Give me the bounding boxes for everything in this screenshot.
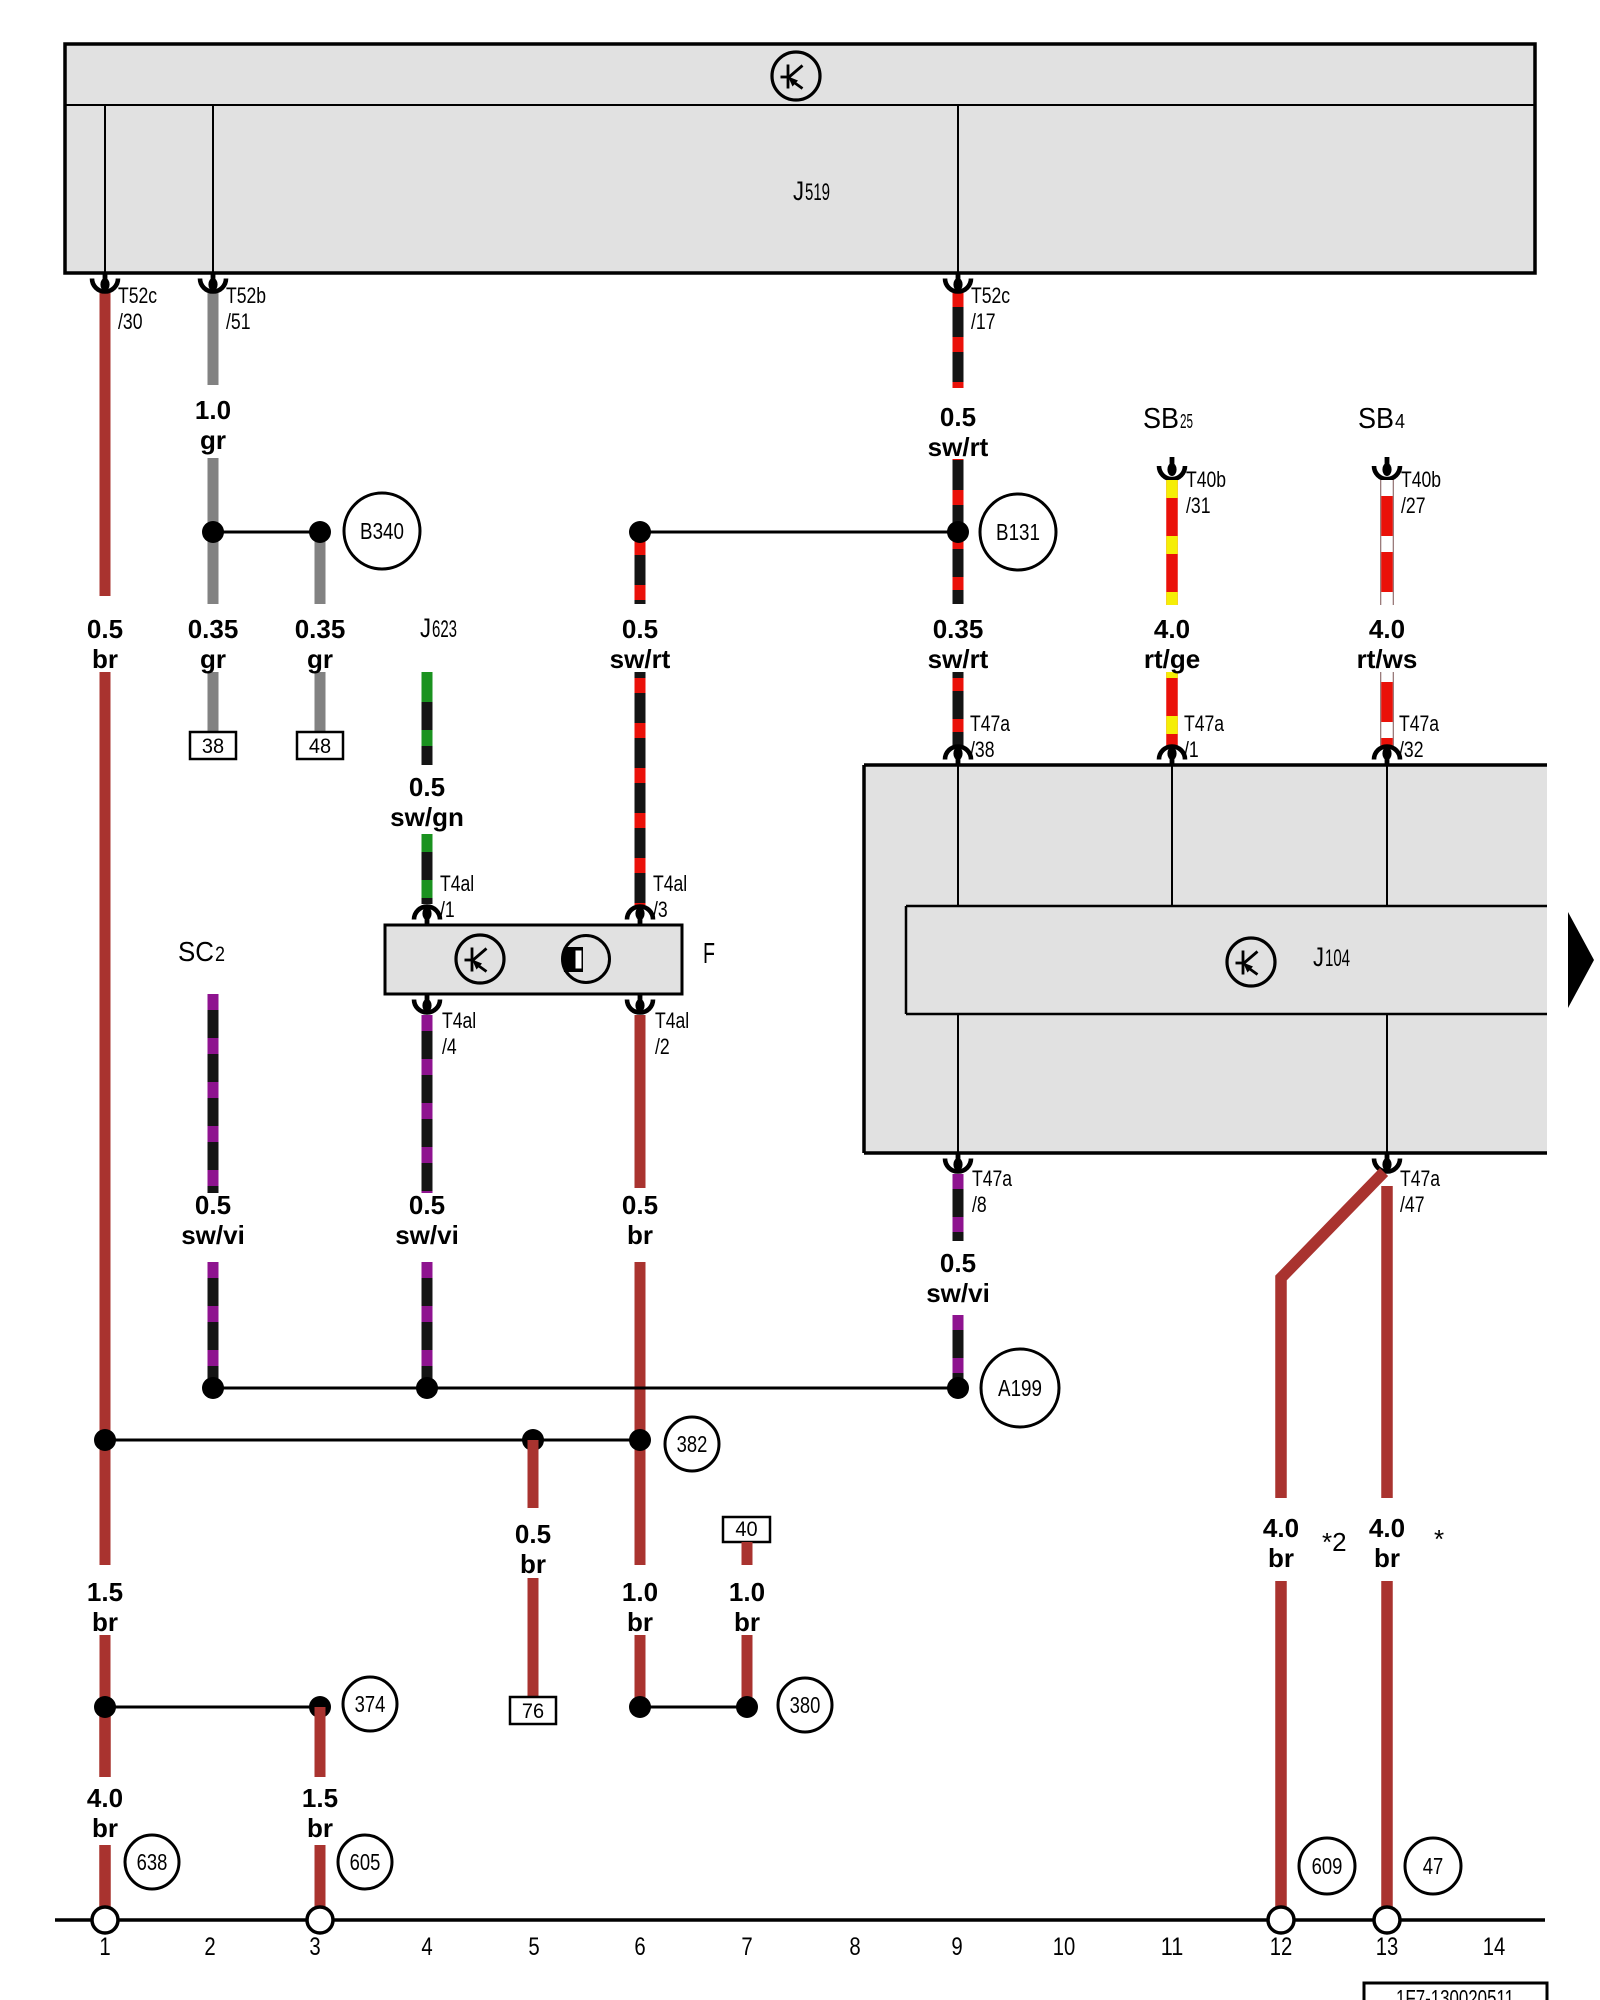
label 0.5 br col1 — [87, 614, 123, 674]
svg-text:1.0: 1.0 — [729, 1577, 765, 1607]
wire 4.0 rt/ws to J104 T47a/32 — [1380, 672, 1394, 747]
svg-text:br: br — [627, 1607, 653, 1637]
wire 0.35 gr to terminal 38 — [208, 672, 219, 732]
K symbol in F box — [456, 935, 504, 983]
svg-text:38: 38 — [202, 735, 224, 758]
svg-text:T47a: T47a — [1400, 1166, 1441, 1191]
svg-text:/8: /8 — [972, 1192, 987, 1217]
wire 4.0 br col12 to ground — [1275, 1581, 1287, 1908]
svg-text:T40b: T40b — [1186, 467, 1226, 492]
svg-text:0.5: 0.5 — [622, 614, 658, 644]
svg-text:J: J — [420, 613, 431, 643]
svg-text:/47: /47 — [1400, 1192, 1425, 1217]
connection 382 — [665, 1417, 719, 1471]
svg-text:1: 1 — [99, 1933, 110, 1961]
svg-text:sw/gn: sw/gn — [390, 802, 464, 832]
wire 1.0 br below terminal 40 — [742, 1542, 753, 1565]
svg-text:0.5: 0.5 — [409, 1190, 445, 1220]
control unit J519 box — [65, 44, 1535, 273]
wire 0.5 br col5 to terminal 76 — [528, 1578, 539, 1698]
label T47a/8 — [972, 1166, 1013, 1217]
label T4al/1 — [440, 871, 474, 922]
wire 0.5 sw/vi to A199 — [953, 1315, 964, 1388]
wire link 380 row — [640, 1706, 747, 1709]
wire 1.5 br col1 — [100, 1440, 111, 1565]
svg-text:4.0: 4.0 — [1369, 614, 1405, 644]
svg-text:605: 605 — [350, 1849, 381, 1875]
control unit J104 outer box — [864, 765, 1547, 1153]
svg-text:sw/vi: sw/vi — [395, 1220, 459, 1250]
svg-text:F: F — [703, 938, 715, 970]
K symbol in J104 — [1227, 938, 1275, 986]
svg-text:/2: /2 — [655, 1034, 670, 1059]
svg-text:380: 380 — [790, 1692, 821, 1718]
connector T47a/47 at J104 bottom — [1374, 1153, 1400, 1172]
svg-text:T4al: T4al — [653, 871, 687, 896]
svg-text:7: 7 — [741, 1933, 752, 1961]
ground symbol 47 — [1374, 1907, 1400, 1933]
J519 internal pin line T52c/30 — [104, 105, 106, 273]
svg-text:T52c: T52c — [971, 283, 1010, 308]
wire 0.5 sw/gn to F T4al/1 — [422, 834, 433, 904]
svg-text:A199: A199 — [998, 1375, 1042, 1401]
J104 internal pin line T47a/8 — [957, 1014, 959, 1153]
connector T40b/31 at SB25 — [1159, 457, 1185, 479]
junction dot col3 374 — [309, 1696, 331, 1718]
label 0.5 sw/vi SC2 — [181, 1190, 245, 1250]
junction dot col1 374 — [94, 1696, 116, 1718]
ground designation 638 — [125, 1835, 179, 1889]
ground designation 609 — [1299, 1838, 1355, 1894]
wire 4.0 br col13 from T47a/47 — [1381, 1186, 1393, 1498]
svg-text:76: 76 — [522, 1700, 544, 1723]
svg-text:40: 40 — [735, 1518, 757, 1541]
ground designation 47 — [1405, 1838, 1461, 1894]
junction dot col6 382 — [629, 1429, 651, 1451]
svg-text:T52c: T52c — [118, 283, 157, 308]
label 0.5 sw/vi col4 — [395, 1190, 459, 1250]
svg-text:sw/rt: sw/rt — [610, 644, 671, 674]
wire 0.5 sw/vi from F T4al/4 — [422, 1015, 433, 1193]
continuation arrow right of J104 — [1568, 912, 1594, 1008]
svg-text:4: 4 — [421, 1933, 432, 1961]
svg-text:0.5: 0.5 — [940, 1248, 976, 1278]
svg-text:br: br — [1374, 1543, 1400, 1573]
svg-text:0.5: 0.5 — [940, 402, 976, 432]
svg-text:1F7-130020511: 1F7-130020511 — [1396, 1985, 1514, 2000]
J519 internal pin line T52b/51 — [212, 105, 214, 273]
connection B340 — [344, 493, 420, 569]
terminal box 48 — [297, 732, 343, 759]
connection 374 — [343, 1677, 397, 1731]
label 1.0 gr — [195, 395, 231, 455]
junction dot SC2 A199 — [202, 1377, 224, 1399]
wire 0.35 sw/rt to J104 T47a/38 — [953, 672, 964, 747]
svg-text:1.5: 1.5 — [87, 1577, 123, 1607]
ground designation 605 — [338, 1835, 392, 1889]
terminal box 76 — [510, 1697, 556, 1724]
junction dot col2 B340 — [202, 521, 224, 543]
svg-text:br: br — [627, 1220, 653, 1250]
svg-text:6: 6 — [634, 1933, 645, 1961]
svg-text:T52b: T52b — [226, 283, 266, 308]
svg-text:SB: SB — [1358, 403, 1394, 435]
svg-text:J: J — [793, 176, 804, 206]
svg-text:609: 609 — [1312, 1853, 1343, 1879]
svg-text:br: br — [92, 644, 118, 674]
label T52c/30 — [118, 283, 157, 334]
label 0.5 sw/rt col9 — [928, 402, 989, 462]
svg-text:48: 48 — [309, 735, 331, 758]
connector T47a/1 at J104 top — [1159, 747, 1185, 765]
svg-text:br: br — [520, 1549, 546, 1579]
label T4al/4 — [442, 1008, 476, 1059]
svg-text:T4al: T4al — [440, 871, 474, 896]
svg-text:4.0: 4.0 — [1263, 1513, 1299, 1543]
wire 0.35 gr to terminal 48 — [315, 672, 326, 732]
svg-text:13: 13 — [1376, 1933, 1399, 1961]
label 0.35 gr col2 — [188, 614, 239, 674]
junction dot col6 380 — [629, 1696, 651, 1718]
junction dot col6 B131 — [629, 521, 651, 543]
wire link 382 row — [105, 1439, 640, 1442]
svg-text:/3: /3 — [653, 897, 668, 922]
svg-text:/4: /4 — [442, 1034, 457, 1059]
svg-text:382: 382 — [677, 1431, 708, 1457]
wire 1.0 br col7 to 380 row — [742, 1635, 753, 1707]
label 1.0 br col7 — [729, 1577, 765, 1637]
wire 0.5 br from J519 T52c/30 upper — [100, 292, 111, 596]
wire 0.5 sw/rt from J519 T52c/17 — [953, 292, 964, 388]
svg-text:gr: gr — [200, 644, 226, 674]
label T40b/31 — [1186, 467, 1226, 518]
svg-text:br: br — [307, 1813, 333, 1843]
wire 1.5 br col1 lower — [100, 1635, 111, 1707]
wire 4.0 rt/ge from SB25 — [1166, 480, 1178, 605]
connector T4al/2 at F bottom — [627, 994, 653, 1013]
label T4al/3 — [653, 871, 687, 922]
svg-text:9: 9 — [951, 1933, 962, 1961]
wire 0.5 br col6 to 382 line — [635, 1262, 646, 1440]
label 0.5 br col5 — [515, 1519, 551, 1579]
label 1.5 br col1 — [87, 1577, 123, 1637]
junction dot col5 382 — [522, 1429, 544, 1451]
svg-text:T4al: T4al — [442, 1008, 476, 1033]
label T4al/2 — [655, 1008, 689, 1059]
svg-text:/38: /38 — [970, 737, 995, 762]
wire 0.5 br col5 from 382 row — [528, 1440, 539, 1508]
svg-text:T47a: T47a — [972, 1166, 1013, 1191]
svg-text:SB: SB — [1143, 403, 1179, 435]
label 0.5 sw/rt col6 — [610, 614, 671, 674]
svg-text:4.0: 4.0 — [1369, 1513, 1405, 1543]
svg-text:374: 374 — [355, 1691, 386, 1717]
junction dot col4 A199 — [416, 1377, 438, 1399]
svg-text:rt/ge: rt/ge — [1144, 644, 1200, 674]
svg-text:B131: B131 — [996, 519, 1040, 545]
svg-text:sw/rt: sw/rt — [928, 644, 989, 674]
terminal box 38 — [190, 732, 236, 759]
svg-text:/1: /1 — [440, 897, 455, 922]
ground symbol 609 — [1268, 1907, 1294, 1933]
J104 inner band — [906, 906, 1547, 1014]
svg-text:638: 638 — [137, 1849, 168, 1875]
svg-text:2: 2 — [204, 1933, 215, 1961]
J104 internal pin line T47a/38 — [957, 765, 959, 906]
label 4.0 br col12 — [1263, 1513, 1299, 1573]
junction dot col1 382 — [94, 1429, 116, 1451]
wire 1.0 br col6 — [635, 1440, 646, 1565]
svg-text:T4al: T4al — [655, 1008, 689, 1033]
svg-text:11: 11 — [1161, 1933, 1184, 1961]
wire 0.5 sw/rt to F T4al/3 — [635, 672, 646, 905]
wire 1.5 br col3 below 374 — [315, 1707, 326, 1777]
wire 0.35 gr below junction col3 — [315, 532, 326, 604]
connector T52b/51 at J519 bottom — [200, 273, 226, 292]
terminal box 40 — [723, 1517, 770, 1542]
svg-text:T47a: T47a — [1184, 711, 1225, 736]
svg-text:4: 4 — [1395, 411, 1405, 433]
svg-text:104: 104 — [1325, 945, 1350, 972]
svg-text:1.0: 1.0 — [195, 395, 231, 425]
K symbol in J519 — [772, 52, 820, 100]
svg-text:0.5: 0.5 — [195, 1190, 231, 1220]
svg-text:T47a: T47a — [1399, 711, 1440, 736]
label 0.5 sw/gn — [390, 772, 464, 832]
wire 1.5 br col3 to ground — [315, 1845, 326, 1908]
junction dot col9 B131 — [947, 521, 969, 543]
svg-text:br: br — [92, 1607, 118, 1637]
svg-text:519: 519 — [805, 179, 830, 206]
connector T4al/1 at F top — [414, 907, 440, 925]
svg-text:8: 8 — [849, 1933, 860, 1961]
svg-text:12: 12 — [1270, 1933, 1293, 1961]
svg-text:gr: gr — [200, 425, 226, 455]
svg-text:10: 10 — [1053, 1933, 1076, 1961]
fuse/switch box F — [385, 925, 682, 994]
lamp symbol in F box — [563, 936, 610, 983]
svg-text:/51: /51 — [226, 309, 251, 334]
connector T52c/30 at J519 bottom — [92, 273, 118, 292]
wire 0.5 sw/gn from J623 — [422, 672, 433, 765]
wire 4.0 br col13 to ground — [1381, 1581, 1393, 1908]
svg-text:0.5: 0.5 — [409, 772, 445, 802]
svg-text:T40b: T40b — [1401, 467, 1441, 492]
svg-text:/27: /27 — [1401, 493, 1426, 518]
svg-text:sw/rt: sw/rt — [928, 432, 989, 462]
label 1.5 br col3 — [302, 1783, 338, 1843]
svg-text:B340: B340 — [360, 518, 404, 544]
svg-text:1.0: 1.0 — [622, 1577, 658, 1607]
wire 0.5 sw/rt below junction col6 — [635, 532, 646, 604]
svg-text:br: br — [92, 1813, 118, 1843]
grid track numbers — [99, 1933, 1505, 1961]
wire 0.5 br from F T4al/2 — [635, 1015, 646, 1188]
wire 0.5 sw/rt to B131 junction — [953, 459, 964, 532]
svg-text:0.5: 0.5 — [87, 614, 123, 644]
ground symbol 638 — [92, 1907, 118, 1933]
J519 internal pin line T52c/17 — [957, 105, 959, 273]
svg-text:/32: /32 — [1399, 737, 1424, 762]
wire 1.0 gr from J519 T52b/51 — [208, 292, 219, 385]
svg-text:1.5: 1.5 — [302, 1783, 338, 1813]
junction dot col9 A199 — [947, 1377, 969, 1399]
label T52c/17 — [971, 283, 1010, 334]
label 4.0 rt/ge — [1144, 614, 1200, 674]
svg-text:4.0: 4.0 — [1154, 614, 1190, 644]
connector T47a/32 at J104 top — [1374, 747, 1400, 765]
svg-text:T47a: T47a — [970, 711, 1011, 736]
wire 0.5 sw/vi from fuse SC2 — [208, 994, 219, 1193]
wire 0.5 sw/vi to A199 line — [422, 1262, 433, 1388]
connection 380 — [778, 1678, 832, 1732]
connector T4al/4 at F bottom — [414, 994, 440, 1012]
wire 0.5 sw/vi SC2 to A199 line — [208, 1262, 219, 1388]
connector T52c/17 at J519 bottom — [945, 273, 971, 292]
wire 4.0 rt/ge to J104 T47a/1 — [1166, 672, 1178, 747]
svg-text:25: 25 — [1180, 411, 1193, 433]
J104 internal pin line T47a/47 — [1386, 1014, 1388, 1153]
connector T40b/27 at SB4 — [1374, 457, 1400, 479]
label T47a/47 — [1400, 1166, 1441, 1217]
svg-text:2: 2 — [215, 943, 225, 966]
svg-text:*: * — [1434, 1524, 1444, 1554]
svg-text:rt/ws: rt/ws — [1357, 644, 1418, 674]
svg-text:br: br — [1268, 1543, 1294, 1573]
svg-text:14: 14 — [1483, 1933, 1506, 1961]
label 0.5 br col6 — [622, 1190, 658, 1250]
svg-text:gr: gr — [307, 644, 333, 674]
label T47a/38 — [970, 711, 1011, 762]
connector T47a/38 at J104 top — [945, 747, 971, 765]
svg-text:4.0: 4.0 — [87, 1783, 123, 1813]
wire link B131 junction — [640, 531, 958, 534]
wire 0.5 br col1 middle — [100, 672, 111, 1440]
svg-text:*2: *2 — [1322, 1527, 1347, 1557]
svg-text:/17: /17 — [971, 309, 996, 334]
svg-text:0.5: 0.5 — [622, 1190, 658, 1220]
svg-text:sw/vi: sw/vi — [926, 1278, 990, 1308]
wire 4.0 rt/ws from SB4 — [1380, 480, 1394, 605]
connector T47a/8 at J104 bottom — [945, 1153, 971, 1172]
svg-text:47: 47 — [1423, 1853, 1444, 1879]
label 0.35 sw/rt col9 — [928, 614, 989, 674]
svg-text:623: 623 — [432, 616, 457, 643]
J104 internal pin line T47a/32 — [1386, 765, 1388, 906]
svg-text:5: 5 — [528, 1933, 539, 1961]
label 0.35 gr col3 — [295, 614, 346, 674]
wire 1.0 gr to junction — [208, 458, 219, 532]
svg-text:SC: SC — [178, 936, 214, 967]
svg-text:0.35: 0.35 — [933, 614, 984, 644]
svg-text:/31: /31 — [1186, 493, 1211, 518]
svg-text:/1: /1 — [1184, 737, 1199, 762]
J104 internal pin line T47a/1 — [1171, 765, 1173, 906]
diagram code box 1F7-130020511 — [1364, 1983, 1547, 2000]
svg-text:0.35: 0.35 — [295, 614, 346, 644]
svg-text:0.5: 0.5 — [515, 1519, 551, 1549]
connection A199 — [981, 1349, 1059, 1427]
wire 0.35 sw/rt below B131 — [953, 532, 964, 604]
connection B131 — [980, 494, 1056, 570]
wire 4.0 br col1 — [99, 1707, 111, 1777]
svg-text:0.35: 0.35 — [188, 614, 239, 644]
svg-text:sw/vi: sw/vi — [181, 1220, 245, 1250]
wire 0.5 sw/vi from J104 T47a/8 — [953, 1174, 964, 1241]
wire link A199 row — [213, 1387, 958, 1390]
wire 4.0 br diagonal from T47a/47 — [1281, 1172, 1384, 1498]
label 4.0 br col1 — [87, 1783, 123, 1843]
wire 0.35 gr below junction col2 — [208, 532, 219, 604]
label 1.0 br col6 — [622, 1577, 658, 1637]
label T47a/1 — [1184, 711, 1225, 762]
junction dot col3 B340 — [309, 521, 331, 543]
junction dot col7 380 — [736, 1696, 758, 1718]
label 0.5 sw/vi col9 — [926, 1248, 990, 1308]
wire link B340 junction — [213, 531, 320, 534]
svg-text:J: J — [1313, 942, 1324, 972]
wire link 374 row — [105, 1706, 320, 1709]
label 4.0 br col13 — [1369, 1513, 1405, 1573]
label T47a/32 — [1399, 711, 1440, 762]
label T40b/27 — [1401, 467, 1441, 518]
svg-text:3: 3 — [309, 1933, 320, 1961]
label 4.0 rt/ws — [1357, 614, 1418, 674]
label T52b/51 — [226, 283, 266, 334]
wire 4.0 br col1 to ground — [99, 1845, 111, 1908]
svg-text:/30: /30 — [118, 309, 143, 334]
ground symbol 605 — [307, 1907, 333, 1933]
ground rail line — [55, 1918, 1545, 1922]
wire 1.0 br col6 to 380 line — [635, 1635, 646, 1707]
connector T4al/3 at F top — [627, 907, 653, 925]
svg-text:br: br — [734, 1607, 760, 1637]
